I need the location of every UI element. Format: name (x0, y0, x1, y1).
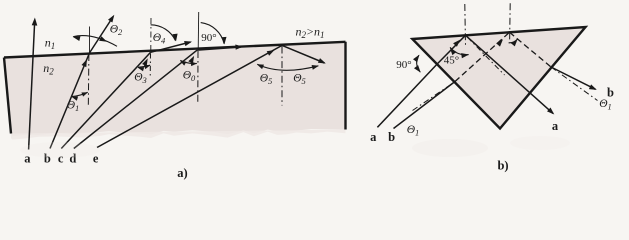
normal at P1 (dash-dot vertical) (464, 4, 467, 46)
svg-text:b: b (388, 130, 395, 144)
entry face normal (dash-dot) (413, 84, 452, 111)
normal above b (89, 27, 91, 53)
prism glass body (412, 27, 585, 129)
left edge of n2 region (4, 58, 11, 134)
ray a inside to P1 (437, 35, 465, 64)
45 degree arc at P1 (450, 47, 469, 55)
torn paper fringe under region (11, 130, 346, 140)
theta3 angle arc (138, 65, 150, 67)
ray d incident (74, 50, 198, 149)
ray a reflected and exiting (466, 35, 554, 113)
normal at P2 (dash-dot vertical) (509, 3, 512, 42)
exit face normal (dash-dot) (551, 67, 598, 101)
ray b incident (50, 53, 90, 149)
svg-text:a): a) (177, 166, 187, 180)
normal below c (dash-dot) (149, 54, 151, 78)
normal above c (dash-dot) (150, 18, 152, 52)
ray a incident outside (377, 64, 437, 127)
normal below e (dash-dot) (281, 47, 283, 106)
theta5 double angle arc (257, 64, 318, 70)
normal below b (dash-dot) (87, 54, 90, 107)
ray b refracted (90, 17, 114, 53)
svg-text:b: b (607, 86, 614, 100)
svg-text:45°: 45° (444, 55, 459, 67)
right edge of n2 region (344, 42, 346, 130)
theta0 angle arc (180, 60, 197, 63)
svg-text:b): b) (497, 159, 508, 173)
normal above d (197, 12, 200, 50)
medium n2 shaded region (4, 42, 346, 136)
small arc at P2 (509, 39, 518, 43)
ray b reflected inside (dashed) (510, 32, 552, 67)
svg-text:90°: 90° (201, 32, 216, 44)
ray b exiting outside (551, 67, 596, 89)
reflected path annotation from P1 (dash-dot) (468, 37, 505, 75)
theta2 angle arc (73, 36, 117, 47)
90 degree angle arc (201, 23, 224, 44)
ray b inside (dashed) to P2 (455, 32, 510, 81)
ray b incident outside (394, 82, 456, 129)
svg-text:a: a (370, 130, 377, 144)
ray e totally reflected (282, 45, 324, 63)
ray c incident (61, 52, 150, 148)
interface line between n1 and n2 (4, 42, 346, 58)
ray c refracted (grazing) (151, 42, 191, 52)
svg-text:a: a (552, 119, 559, 133)
ray e incident (97, 45, 282, 147)
theta1 angle arc (72, 92, 88, 96)
ray a (normal incidence, straight through) (29, 21, 35, 150)
svg-text:90°: 90° (396, 59, 411, 71)
ray d refracted along surface (197, 47, 241, 50)
faint paper smudges (412, 139, 488, 157)
normal below d (dash-dot) (197, 51, 199, 102)
90 degree arc at ray a entry (417, 55, 421, 72)
theta4 angle arc (151, 25, 176, 41)
